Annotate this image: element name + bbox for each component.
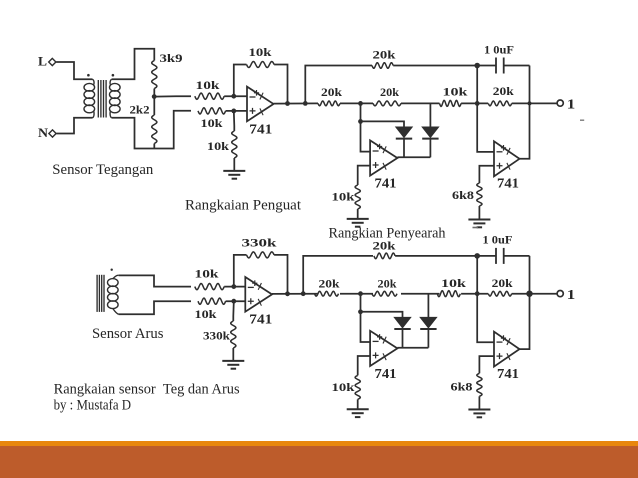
label 10k feedback U1	[249, 45, 272, 59]
label U4 741	[249, 313, 272, 328]
resistor 20k row1 B	[315, 291, 339, 296]
scan dash	[473, 227, 479, 229]
wire U2 output rail	[397, 156, 430, 158]
resistor 20k row4 B	[488, 291, 511, 296]
wire top branch B	[303, 256, 373, 294]
label 1 0uF	[484, 42, 514, 56]
label 330k ground leg	[203, 329, 230, 343]
wire L to transformer primary	[56, 62, 92, 79]
label 10k upper	[196, 78, 220, 92]
wire U2 inverting input	[361, 121, 371, 151]
caption Sensor Tegangan	[52, 162, 153, 178]
wire U5 inverting input	[361, 312, 371, 342]
node main top-branch junction B	[301, 291, 306, 296]
footer accent stripe	[0, 441, 638, 446]
svg-text:6k8: 6k8	[452, 188, 474, 202]
svg-text:10k: 10k	[443, 85, 468, 99]
node U1 output/feedback	[285, 101, 290, 106]
resistor 330k ground leg	[231, 301, 236, 361]
diode D3	[394, 317, 410, 329]
wire to output terminal B	[512, 293, 557, 295]
svg-text:10k: 10k	[195, 267, 219, 281]
resistor 10k lower input	[198, 108, 247, 114]
svg-text:741: 741	[249, 123, 272, 138]
svg-text:1 0uF: 1 0uF	[484, 42, 514, 56]
transformer T1 primary coil	[84, 79, 95, 118]
label 2k2	[130, 103, 150, 117]
diode D1	[396, 127, 412, 139]
svg-text:L: L	[38, 54, 47, 69]
wire U4 output	[272, 293, 318, 295]
op-amp U2 741	[370, 140, 397, 175]
scan speck	[580, 119, 584, 121]
wire row2-row3	[401, 102, 440, 104]
node filter input B	[475, 291, 480, 296]
wire D2 to rail	[429, 139, 431, 157]
label 10k U1 ground leg	[207, 139, 229, 153]
wire D2 to main row	[429, 103, 431, 127]
diode D4	[420, 317, 436, 329]
node rectifier tap B	[358, 291, 363, 296]
resistor 10k row3 B	[437, 291, 460, 297]
wire U3 non-inverting input	[479, 166, 494, 183]
node main top-branch junction	[303, 101, 308, 106]
wire rect tap down B	[360, 294, 362, 312]
wire D4 to rail	[427, 330, 429, 348]
wire U5 output rail	[397, 347, 428, 349]
wire sensor top	[119, 275, 191, 286]
label 20k top branch B	[373, 238, 396, 252]
node U4 inverting input	[231, 284, 236, 289]
T1 phase dot secondary	[112, 74, 115, 77]
wire top branch	[305, 66, 372, 104]
resistor 20k top branch B	[374, 253, 395, 258]
label U5 741	[375, 367, 397, 382]
label 20k row1	[321, 85, 342, 99]
svg-text:20k: 20k	[492, 276, 513, 290]
current sensor core	[97, 275, 104, 312]
wire top branch to cap node B	[395, 255, 477, 257]
node U4 output/feedback	[285, 291, 290, 296]
wire sensor bottom	[119, 301, 191, 314]
wire row1-row2 B	[340, 293, 373, 295]
svg-text:1: 1	[567, 98, 576, 113]
resistor 10k feedback U1	[247, 62, 275, 68]
diode D2	[422, 127, 438, 139]
node U1 inverting input	[231, 94, 236, 99]
label 6k8 B	[451, 380, 473, 394]
label 10k row3	[443, 85, 468, 99]
resistor 330k feedback U4	[247, 252, 275, 258]
wire rect to D1	[361, 121, 405, 127]
node U3 out row	[528, 101, 532, 105]
svg-text:by : Mustafa D: by : Mustafa D	[54, 398, 132, 414]
node rect inner B	[358, 309, 363, 314]
caption Rangkaian sensor Teg dan Arus	[54, 382, 240, 398]
svg-text:Rangkaian sensor Teg dan Arus: Rangkaian sensor Teg dan Arus	[54, 382, 240, 398]
op-amp U4 741	[245, 277, 272, 312]
svg-text:10k: 10k	[207, 139, 229, 153]
label U6 741	[497, 367, 519, 382]
transformer T1 core	[98, 80, 106, 118]
wire U1 feedback right	[274, 65, 287, 104]
wire rect tap down	[360, 103, 362, 121]
wire row3 to node B	[461, 293, 488, 295]
op-amp U5 741	[370, 331, 397, 366]
svg-text:Sensor Tegangan: Sensor Tegangan	[52, 162, 153, 178]
resistor 2k2	[152, 97, 157, 149]
svg-text:741: 741	[497, 177, 519, 192]
resistor 6k8 B	[477, 373, 482, 409]
svg-text:2k2: 2k2	[130, 103, 150, 117]
resistor 20k row4 feedback	[488, 101, 511, 106]
label 330k feedback U4	[242, 236, 277, 250]
wire N to transformer primary	[56, 118, 92, 134]
footer bar	[0, 446, 638, 478]
resistor 10k upper input	[195, 93, 247, 99]
wire U4 feedback right	[274, 255, 287, 294]
wire D4 to main row	[427, 294, 429, 318]
wire U6 non-inverting input	[479, 356, 494, 373]
svg-text:1 0uF: 1 0uF	[483, 232, 513, 246]
svg-text:10k: 10k	[332, 190, 355, 204]
op-amp U1 741	[247, 87, 274, 122]
svg-text:330k: 330k	[242, 236, 277, 250]
label 20k row1 B	[319, 276, 340, 290]
label 20k top branch	[373, 48, 396, 62]
wire cap to U6 output	[520, 256, 530, 349]
terminal output 1	[557, 100, 563, 106]
svg-text:20k: 20k	[378, 276, 397, 290]
wire filter node down to U3	[477, 66, 494, 152]
svg-text:20k: 20k	[373, 48, 396, 62]
label U3 741	[497, 177, 519, 192]
ground G1	[223, 171, 245, 179]
resistor 10k U1 ground leg	[232, 111, 237, 171]
op-amp U6 741	[494, 332, 520, 367]
label 20k row2	[380, 85, 399, 99]
svg-text:20k: 20k	[380, 85, 399, 99]
ground G4	[222, 361, 244, 369]
current sensor phase dot	[111, 269, 113, 271]
terminal output 1 B	[557, 291, 563, 297]
caption Sensor Arus	[92, 326, 164, 342]
terminal L	[38, 54, 56, 69]
resistor 20k top branch	[372, 63, 393, 68]
wire T1 secondary top	[112, 49, 155, 80]
label 3k9	[160, 51, 183, 65]
svg-text:N: N	[38, 125, 49, 140]
svg-text:741: 741	[497, 367, 519, 382]
resistor 10k row3	[440, 100, 462, 106]
wire cap to U3 output	[520, 66, 530, 159]
node filter input	[475, 101, 480, 106]
label 20k row2 B	[378, 276, 397, 290]
caption Rangkaian Penguat	[185, 198, 302, 214]
svg-text:20k: 20k	[493, 84, 514, 98]
wire filter node down to U6	[477, 256, 494, 342]
svg-text:10k: 10k	[196, 78, 220, 92]
ground G2	[347, 219, 369, 227]
svg-text:741: 741	[375, 367, 397, 382]
current sensor coil	[108, 275, 119, 314]
capacitor 1 0uF	[477, 58, 529, 74]
resistor 10k U2 ground leg	[355, 185, 360, 219]
node rect inner	[358, 119, 363, 124]
capacitor 1 0uF B	[477, 248, 529, 264]
label 20k row4	[493, 84, 514, 98]
wire row2-row3 B	[401, 293, 440, 295]
label 10k U2 ground leg	[332, 190, 355, 204]
wire row1-row2	[340, 102, 373, 104]
wire rect to D3	[361, 312, 403, 318]
label U1 741	[249, 123, 272, 138]
svg-text:20k: 20k	[321, 85, 342, 99]
wire T1 secondary bottom	[112, 111, 191, 149]
label 6k8	[452, 188, 474, 202]
svg-text:10k: 10k	[249, 45, 272, 59]
resistor 20k row2	[373, 101, 401, 106]
node cap junction	[474, 63, 480, 69]
svg-text:330k: 330k	[203, 329, 230, 343]
wire U1 feedback left	[234, 65, 247, 97]
svg-text:1: 1	[567, 288, 576, 303]
node rectifier tap	[358, 101, 363, 106]
wire top branch to cap node	[393, 65, 477, 67]
caption Rangkian Penyearah	[329, 226, 446, 242]
label output 1	[567, 98, 576, 113]
resistor 10k upper input B	[195, 284, 246, 290]
T1 phase dot primary	[87, 74, 90, 77]
ground G6	[468, 410, 490, 418]
transformer T1 secondary coil	[110, 79, 121, 118]
wire row3 to node	[461, 102, 488, 104]
resistor 20k row2 B	[372, 291, 397, 296]
label 20k row4 B	[492, 276, 513, 290]
resistor 3k9	[152, 61, 157, 97]
ground G3	[468, 220, 490, 228]
wire to output terminal	[512, 102, 557, 104]
label output 1 B	[567, 288, 576, 303]
svg-text:3k9: 3k9	[160, 51, 183, 65]
ground G5	[347, 409, 369, 417]
svg-text:10k: 10k	[441, 276, 466, 290]
svg-text:20k: 20k	[319, 276, 340, 290]
svg-text:Sensor Arus: Sensor Arus	[92, 326, 164, 342]
svg-text:6k8: 6k8	[451, 380, 473, 394]
terminal N	[38, 125, 56, 140]
svg-text:Rangkaian Penguat: Rangkaian Penguat	[185, 198, 302, 214]
label U2 741	[375, 177, 397, 192]
label 1 0uF B	[483, 232, 513, 246]
svg-text:741: 741	[249, 313, 272, 328]
caption by Mustafa D	[54, 398, 132, 414]
svg-text:20k: 20k	[373, 238, 396, 252]
svg-text:10k: 10k	[201, 116, 223, 130]
node junction 3k9/2k2	[152, 94, 157, 99]
svg-text:741: 741	[375, 177, 397, 192]
resistor 10k U5 ground leg	[355, 375, 360, 409]
resistor 10k lower input B	[198, 298, 245, 304]
node cap junction B	[474, 253, 480, 259]
label 10k lower B	[195, 307, 217, 321]
wire D1 to U2 output	[403, 139, 405, 157]
svg-text:10k: 10k	[332, 380, 355, 394]
label 10k U5 ground leg	[332, 380, 355, 394]
svg-text:10k: 10k	[195, 307, 217, 321]
wire D3 to U5 output	[402, 330, 404, 348]
label 10k row3 B	[441, 276, 466, 290]
node U4 non-inverting input	[231, 299, 236, 304]
wire U5 non-inverting input	[358, 356, 370, 375]
wire U1 output	[274, 102, 319, 104]
node U6 out row	[526, 291, 532, 297]
node U1 non-inverting input	[231, 109, 236, 114]
label 10k lower	[201, 116, 223, 130]
wire U2 non-inverting input	[358, 166, 370, 185]
label 10k upper B	[195, 267, 219, 281]
wire U4 feedback left	[234, 255, 247, 287]
resistor 6k8	[477, 183, 482, 220]
op-amp U3 741	[494, 141, 520, 176]
resistor 20k row1	[318, 101, 340, 106]
wire node to R 10k upper	[154, 95, 191, 97]
